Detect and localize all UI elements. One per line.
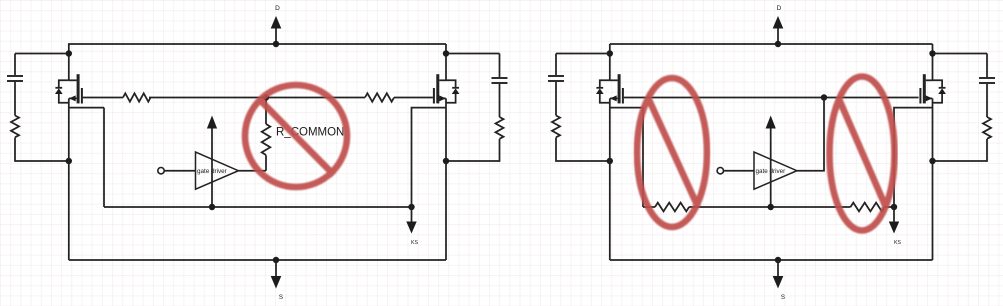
wire: U2 input lead [724, 170, 755, 172]
Q3 source arrow [610, 97, 618, 99]
Q4 source arrow [926, 97, 933, 99]
node: S tap junction dot [273, 257, 279, 263]
resistor R8 (right circuit right snubber) [983, 117, 991, 139]
wire: top drain rail (right circuit) [610, 43, 933, 45]
wire: Q3 kelvin stub [610, 107, 643, 109]
terminal S2: stem [777, 260, 779, 277]
wire: snubber bottom [15, 138, 69, 162]
node: S2 tap junction dot [775, 257, 781, 263]
node: R_COMMON top junction dot [263, 94, 269, 100]
resistor R_COMMON [262, 98, 271, 171]
node: snubber tap dot [607, 50, 613, 56]
wire: snubber bottom [556, 138, 610, 162]
terminal D arrowhead [271, 16, 282, 29]
wire: to left snubber [15, 53, 69, 55]
wire: kelvin source rail [104, 206, 412, 208]
wire: Q2 kelvin stub [412, 108, 447, 207]
wire: Q3 source drop to S rail [609, 98, 611, 260]
node: gate bus junction dot [821, 94, 827, 100]
Q1 source arrow [69, 97, 77, 99]
wire: U2 output to gate bus [797, 98, 824, 171]
wire: snubber cap top lead [14, 54, 16, 76]
wire: R5 to supply junction [689, 206, 851, 208]
wire: left drain drop (right circuit) [609, 44, 611, 80]
wire: cap to resistor lead [14, 82, 16, 116]
Q2 source arrow [439, 97, 446, 99]
wire: right snubber cap lead [986, 54, 988, 78]
wire: right snubber bottom [446, 139, 500, 161]
transistor Q3 (right circuit left MOSFET) [610, 74, 623, 103]
wire: U1 supply line [211, 128, 213, 207]
wire: to snubber [556, 53, 610, 55]
Q3 channel bar [618, 74, 621, 103]
Q1 gate bar [81, 88, 83, 104]
terminal D (left circuit): stem [275, 28, 277, 44]
node: left snubber tap dot [66, 50, 72, 56]
U1 supply arrowhead [207, 116, 217, 129]
Q2 gate bar [433, 88, 435, 104]
wire: left kelvin drop (right circuit) [642, 108, 644, 207]
wire: gate bus left segment [83, 97, 123, 99]
node: U2 supply junction dot [768, 204, 774, 210]
wire: right drain drop (right circuit) [932, 44, 934, 80]
svg-text:KS: KS [894, 240, 901, 246]
node: snubber bottom junction dot [607, 158, 613, 164]
op-amp U1 (gate driver, left circuit) [196, 152, 239, 189]
Q3 gate bar [622, 88, 624, 104]
wire: cap to resistor lead [986, 84, 988, 117]
diode D3 (Q3 body diode) [596, 80, 610, 103]
node: right snubber tap dot [443, 50, 449, 56]
node: right snubber tap dot [929, 50, 935, 56]
wire: snubber cap top lead [555, 54, 557, 76]
wire: Q4 source drop to S rail [932, 98, 934, 260]
node: snubber bottom junction dot [66, 158, 72, 164]
transistor Q1 (left MOSFET, gate at right) [69, 74, 82, 103]
wire: right snubber cap lead [499, 54, 501, 78]
terminal S2 arrowhead [773, 276, 784, 289]
terminal KS arrowhead [406, 222, 416, 234]
node: D tap junction dot [273, 41, 279, 47]
terminal D2 (right circuit): stem [777, 28, 779, 44]
resistor R1 (left snubber) [11, 116, 19, 138]
terminal KS2: stem [893, 207, 895, 223]
capacitor C1 (left snubber) [7, 76, 23, 81]
node: U1 input terminal circle [158, 168, 164, 174]
node: D2 tap junction dot [775, 41, 781, 47]
terminal KS2 arrowhead [889, 222, 899, 234]
node: KS2 junction dot [891, 204, 897, 210]
capacitor C2 (right snubber) [492, 78, 508, 83]
node: KS junction dot [408, 204, 414, 210]
wire: bottom source rail (left circuit) [69, 259, 446, 261]
wire: left drain drop [68, 44, 70, 80]
Q4 channel bar [923, 74, 926, 103]
capacitor C3 (right circuit left snubber) [548, 76, 564, 81]
node: U2 input terminal circle [717, 168, 723, 174]
Q4 gate bar [919, 88, 921, 104]
transistor Q2 (right MOSFET, gate at left) [434, 74, 446, 103]
svg-text:S: S [279, 294, 283, 301]
Q4 drain stub [926, 79, 933, 81]
terminal KS: stem [411, 207, 413, 223]
terminal S arrowhead [271, 276, 282, 289]
resistor R7 (right circuit left snubber) [552, 116, 560, 138]
wire: Q1 source drop to S rail [68, 98, 70, 260]
wire: top drain rail (left circuit) [68, 43, 446, 45]
resistor R3 (right gate resistor) [365, 93, 394, 101]
Q3 drain stub [610, 79, 618, 81]
wire: gate bus (right circuit) [624, 97, 919, 99]
wire: Q1 kelvin stub [69, 107, 104, 109]
Q1 drain stub [69, 79, 77, 81]
terminal S: stem [275, 260, 277, 277]
wire: driver output to R_COMMON [238, 170, 266, 172]
node: right snubber bottom dot [929, 158, 935, 164]
wire: to right snubber [933, 53, 988, 55]
wire: bottom source rail (right circuit) [610, 259, 933, 261]
terminal D2 arrowhead [773, 16, 784, 29]
wire: gate bus right segment [394, 97, 433, 99]
wire: R6 to KS junction [885, 206, 895, 208]
capacitor C4 (right circuit right snubber) [979, 78, 995, 83]
resistor R5 (left source resistor, crossed out) [655, 203, 689, 212]
wire: Q2 source drop to S rail [445, 98, 447, 260]
resistor R4 (right snubber) [496, 117, 504, 139]
wire: to right snubber [446, 53, 500, 55]
svg-text:D: D [777, 5, 782, 12]
resistor R2 (left gate resistor) [123, 93, 151, 101]
wire: right drain drop [445, 44, 447, 80]
prohibition sign over R_COMMON [245, 85, 347, 187]
Q2 channel bar [436, 74, 439, 103]
svg-text:S: S [781, 294, 785, 301]
op-amp U2 (gate driver, right circuit) [754, 152, 797, 189]
transistor Q4 (right circuit right MOSFET) [920, 74, 932, 103]
diode D1 (Q1 body diode) [55, 80, 69, 103]
wire: U2 supply line [770, 128, 772, 207]
prohibition ellipse over R6 [830, 77, 895, 231]
Q2 drain stub [439, 79, 446, 81]
wire: Q4 kelvin stub [894, 108, 933, 207]
node: right snubber bottom dot [443, 158, 449, 164]
diode D4 (Q4 body diode) [933, 80, 946, 103]
wire: left kelvin drop [103, 108, 105, 207]
resistor R6 (right source resistor, crossed out) [851, 203, 885, 212]
wire: right snubber bottom [933, 139, 988, 161]
wire: U1 input lead [164, 170, 195, 172]
prohibition ellipse over R5 [637, 78, 707, 227]
wire: gate bus middle segment [149, 97, 365, 99]
wire: kelvin to R5 [643, 206, 655, 208]
wire: cap to resistor lead [555, 82, 557, 116]
U2 supply arrowhead [766, 116, 776, 129]
svg-text:KS: KS [411, 240, 418, 246]
diode D2 (Q2 body diode) [446, 80, 459, 103]
wire: cap to resistor lead [499, 84, 501, 117]
svg-text:D: D [275, 5, 280, 12]
node: U1 supply junction dot [209, 204, 215, 210]
Q1 channel bar [77, 74, 80, 103]
